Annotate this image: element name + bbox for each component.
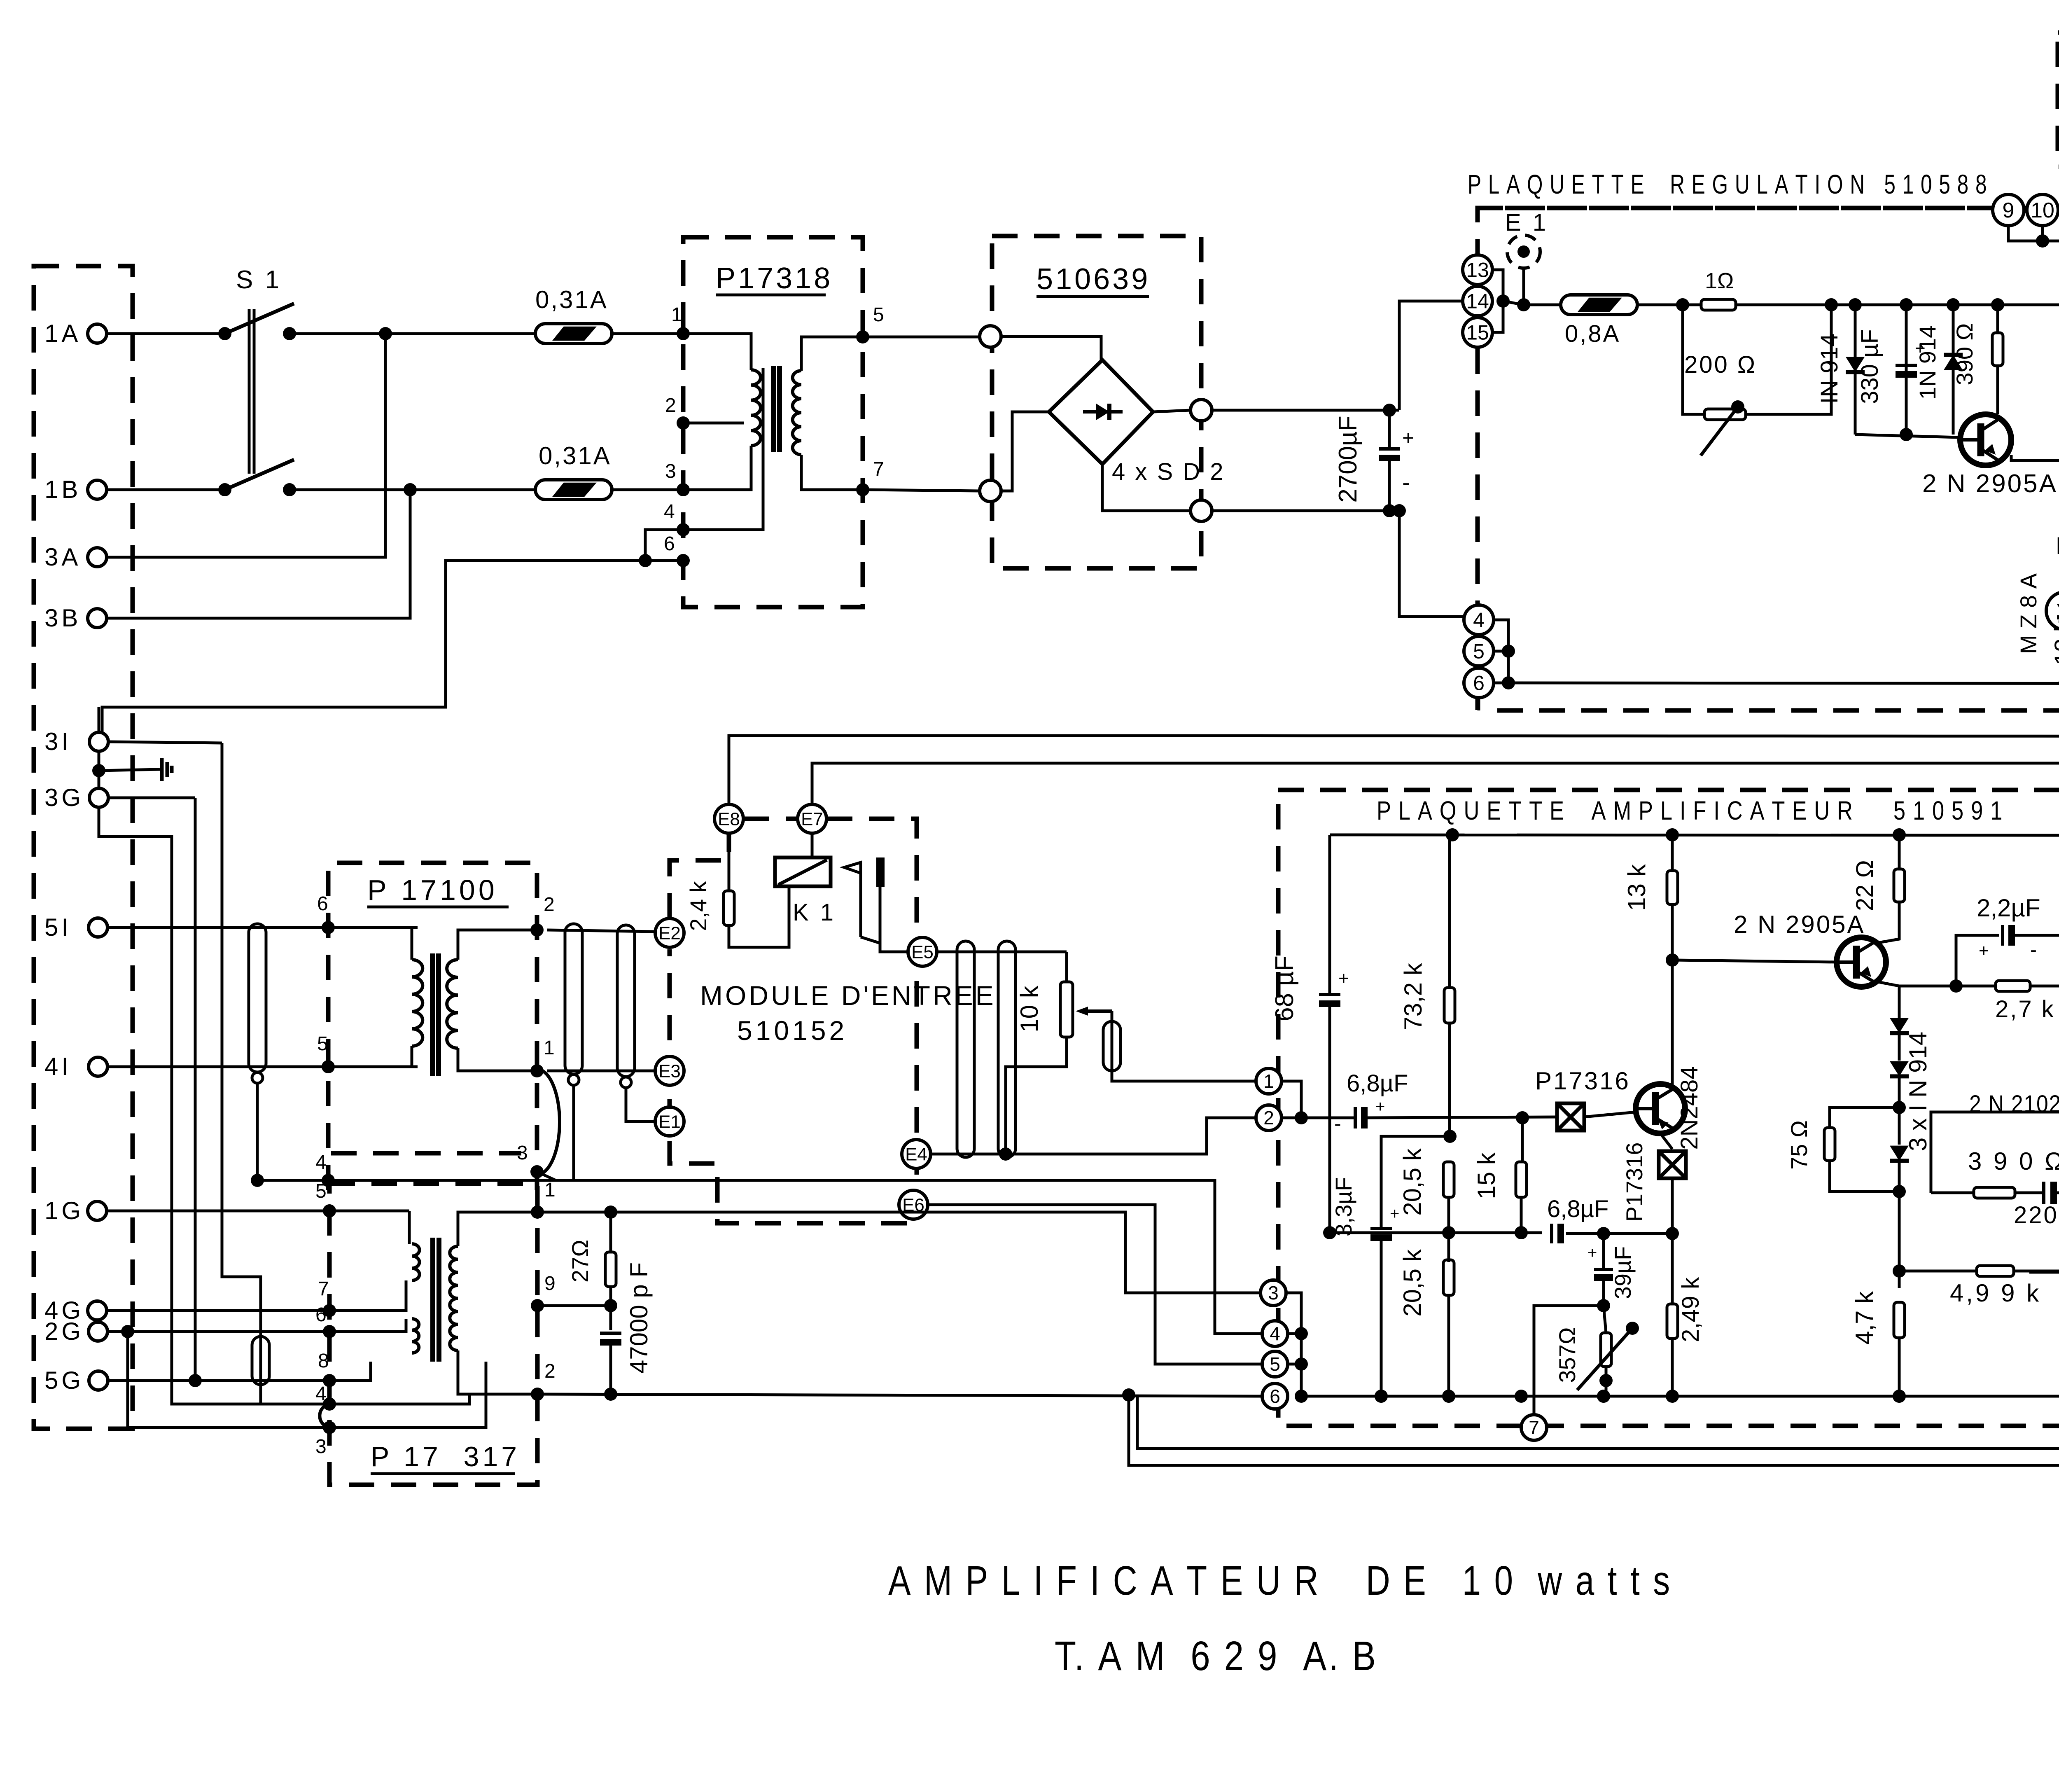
svg-text:13: 13	[1466, 259, 1489, 282]
left connector dashed box	[34, 266, 133, 1429]
svg-text:7: 7	[318, 1278, 329, 1300]
svg-text:E5: E5	[911, 942, 934, 962]
T2 core	[430, 953, 435, 1076]
svg-text:E3: E3	[658, 1061, 681, 1081]
line B output	[537, 1394, 1261, 1396]
T2 secondary coil	[447, 960, 458, 1048]
svg-text:47000 p F: 47000 p F	[625, 1262, 653, 1374]
bus E7 to 0V rail	[812, 763, 2059, 819]
P17100 dashed box	[328, 863, 537, 1190]
P17316 crossbox 1	[1557, 1103, 1584, 1131]
svg-text:1N 914: 1N 914	[1914, 325, 1940, 400]
svg-text:3A: 3A	[44, 543, 81, 571]
wire contact to E5	[880, 887, 908, 952]
T3 secondary coil	[450, 1246, 458, 1350]
wire 1B line	[107, 488, 225, 491]
transformer T1 core	[771, 366, 776, 452]
svg-text:2,2µF: 2,2µF	[1977, 894, 2040, 922]
pin 1 P17317	[531, 1206, 544, 1219]
resistor 390 ohm amp	[1931, 1112, 2059, 1193]
wire 68uF riser to feedback line	[1323, 1226, 1336, 1239]
svg-text:+: +	[1338, 968, 1349, 988]
bus E8 to +40 rail	[729, 736, 2059, 819]
svg-text:7: 7	[1529, 1417, 1539, 1438]
svg-text:K 1: K 1	[793, 899, 836, 926]
amp 2 line	[1282, 1117, 1355, 1119]
svg-text:5: 5	[315, 1180, 327, 1202]
wire 22ohm to 2905A emitter	[1876, 902, 1899, 943]
terminal 13	[1463, 255, 1492, 285]
dashes between terminal groups	[1478, 206, 1993, 210]
svg-text:1: 1	[544, 1037, 555, 1059]
potentiometer 10k	[1065, 952, 1068, 982]
E5 line to pot	[937, 951, 1067, 953]
svg-text:3,3µF: 3,3µF	[1331, 1177, 1356, 1236]
pin 3 P17317	[323, 1421, 336, 1434]
svg-text:3B: 3B	[44, 604, 81, 632]
510639 dashed box	[992, 236, 1201, 568]
svg-text:390 Ω: 390 Ω	[1952, 323, 1977, 386]
svg-text:P L A Q U E T T E A M P L I: P L A Q U E T T E A M P L I F I C A T E …	[1377, 796, 2003, 825]
resistor 15k	[1521, 1118, 1524, 1162]
terminal 1A	[88, 324, 107, 343]
fuse F1 0,31A	[535, 324, 612, 343]
svg-text:7: 7	[873, 458, 884, 480]
svg-text:510152: 510152	[737, 1015, 847, 1046]
wire 3I-3G vertical	[98, 751, 100, 788]
terminal 2G	[89, 1322, 107, 1341]
pin 7	[856, 483, 869, 496]
svg-text:1: 1	[1263, 1070, 1274, 1092]
svg-text:14: 14	[1466, 290, 1489, 313]
shield capsule 5I/4I	[249, 924, 266, 1072]
svg-text:68 µF: 68 µF	[1270, 956, 1299, 1021]
transistor 2N2905A amp1	[1837, 937, 1886, 987]
bridge input circle top	[980, 326, 1001, 347]
svg-text:4I: 4I	[44, 1053, 72, 1080]
svg-text:0,31A: 0,31A	[535, 286, 608, 313]
wire 1A line	[107, 332, 225, 335]
wire 3A	[107, 334, 385, 557]
pin 2 P17317	[531, 1388, 544, 1401]
svg-text:T. A M 6 2 9 A. B: T. A M 6 2 9 A. B	[1055, 1633, 1378, 1679]
svg-text:4: 4	[664, 501, 675, 523]
svg-text:220 p F: 220 p F	[2014, 1202, 2059, 1229]
wire diode bus	[1855, 435, 1959, 437]
svg-text:39µF: 39µF	[1610, 1246, 1636, 1299]
terminal amp 4	[1262, 1321, 1288, 1346]
svg-text:9: 9	[2003, 199, 2015, 222]
svg-text:3G: 3G	[44, 784, 84, 811]
svg-text:4,9 9 k: 4,9 9 k	[1950, 1279, 2041, 1307]
capsule E5 line no2	[998, 941, 1015, 1157]
terminal 1B	[88, 480, 107, 499]
shield capsule E2/E3 no1	[565, 924, 582, 1074]
resistor 75 ohm	[1830, 1107, 1899, 1127]
wire fuse to P17318 pin1	[612, 332, 683, 335]
4I line	[108, 1065, 418, 1068]
5G line pin8	[108, 1379, 329, 1382]
shield capsule pin4 wire	[252, 1336, 269, 1385]
wire 13-15 bracket	[1492, 270, 1503, 332]
resistor 2,7k amp	[1996, 981, 2030, 991]
pot 357 ohm	[1604, 1306, 1606, 1333]
svg-text:E7: E7	[801, 809, 823, 829]
T2 secondary wires	[458, 930, 537, 960]
diode inside bridge	[1083, 410, 1123, 414]
terminal 5	[1464, 636, 1494, 666]
svg-text:10 k: 10 k	[1015, 985, 1043, 1032]
svg-text:MODULE D'ENTREE: MODULE D'ENTREE	[700, 980, 996, 1011]
svg-text:M Z 8 A: M Z 8 A	[2015, 573, 2041, 654]
terminal 3B	[88, 609, 107, 628]
wire pin2 tap	[683, 422, 744, 425]
svg-text:1: 1	[544, 1179, 556, 1201]
svg-text:A M P L I F I C A T E U R D: A M P L I F I C A T E U R D E 1 0 w a t …	[888, 1558, 1672, 1604]
fuse F2 0,31A	[535, 480, 612, 500]
wire pin3 to coil	[683, 446, 751, 490]
terminal 6 stub to box edge	[1478, 698, 1480, 710]
wire crossbox2 down	[1671, 1178, 1674, 1234]
T3 primary upper	[408, 1211, 411, 1244]
P17317 dashed box	[329, 1184, 537, 1485]
shield bus P17100	[257, 1082, 574, 1180]
wire diamond bottom to output2	[1102, 464, 1191, 511]
shield bus to T4 amp	[574, 1180, 1261, 1334]
svg-text:+: +	[1979, 941, 1989, 960]
PLAQUETTE AMPLIFICATEUR box	[1278, 790, 2059, 1426]
5I line	[107, 926, 418, 929]
node junction 3A-1A	[379, 327, 392, 340]
fuse 0,8A	[1561, 295, 1637, 315]
svg-text:2,7 k: 2,7 k	[1995, 996, 2055, 1023]
riser 3G down to 5G line	[194, 798, 197, 1381]
resistor 20,5k upper	[1443, 1162, 1454, 1197]
E4 line to T2 amp	[931, 1118, 1255, 1154]
bus bottom 1	[1137, 1396, 2059, 1449]
pin 5 P17317	[323, 1204, 336, 1217]
svg-text:3: 3	[665, 460, 676, 482]
wire 3I stub up	[98, 707, 100, 732]
ground symbol	[99, 769, 160, 771]
terminal 4G	[88, 1301, 107, 1320]
svg-text:2N2484: 2N2484	[1676, 1066, 1703, 1149]
wire E1 stub	[1522, 268, 1525, 305]
svg-text:4: 4	[1270, 1323, 1280, 1344]
svg-text:5I: 5I	[44, 914, 72, 941]
terminal E2	[655, 918, 684, 947]
wire pin3 stub	[537, 1172, 556, 1180]
wire pin6	[645, 559, 683, 562]
transistor 2N2905A regulation	[1960, 414, 2011, 465]
svg-text:6: 6	[315, 1304, 327, 1326]
wire 73,2k to 3,3uF	[1381, 1136, 1450, 1227]
svg-text:E 1: E 1	[1505, 209, 1548, 236]
svg-text:+: +	[1915, 338, 1926, 358]
svg-text:200 Ω: 200 Ω	[1684, 351, 1757, 378]
svg-text:4: 4	[315, 1383, 327, 1405]
pot 10k wiper arrow	[1083, 1009, 1112, 1013]
svg-text:15 k: 15 k	[1473, 1152, 1500, 1199]
terminal amp 6	[1262, 1383, 1288, 1409]
resistor 73,2k	[1448, 835, 1451, 988]
diode IN914 no2	[1952, 305, 1955, 435]
line A output	[537, 1212, 1260, 1293]
svg-text:1B: 1B	[44, 476, 81, 503]
pin 4 P17100	[322, 1174, 335, 1187]
wire secondary bottom to pin7	[801, 455, 980, 491]
capacitor 2700uF	[1379, 447, 1400, 451]
svg-text:P 17100: P 17100	[367, 874, 498, 906]
svg-text:9: 9	[544, 1273, 556, 1294]
svg-text:2: 2	[1263, 1107, 1274, 1128]
2G line pin6	[107, 1330, 329, 1333]
terminal E7	[798, 804, 826, 833]
wire 9-12 bracket	[2008, 226, 2059, 241]
pin 2	[677, 416, 690, 430]
resistor 22 ohm	[1898, 835, 1901, 869]
switch S1 link	[248, 309, 251, 474]
svg-text:1: 1	[671, 304, 682, 326]
pin 3	[677, 483, 690, 496]
terminal E3	[655, 1056, 684, 1085]
pin 6 P17100	[322, 921, 335, 934]
svg-text:1Ω: 1Ω	[1705, 269, 1734, 293]
capacitor 220pF no1	[2042, 1182, 2045, 1204]
transformer T1 secondary coil	[793, 371, 801, 455]
feedback line 6,8uF2	[1330, 1231, 1542, 1234]
svg-text:1G: 1G	[44, 1197, 84, 1224]
capacitor 39uF	[1602, 1234, 1605, 1268]
svg-text:+: +	[1402, 426, 1414, 449]
wire pin9 to 27ohm	[537, 1304, 611, 1307]
svg-text:5G: 5G	[44, 1367, 84, 1394]
1G line	[107, 1210, 409, 1213]
capacitor 3,3uF	[1370, 1227, 1392, 1230]
terminal 4	[1464, 605, 1494, 635]
svg-text:E8: E8	[718, 809, 740, 829]
jumper arc pin3-pin1	[537, 1069, 560, 1175]
node 4,7k	[1893, 1264, 1906, 1278]
resistor 2,49k	[1671, 1234, 1674, 1304]
svg-text:1A: 1A	[44, 320, 81, 347]
svg-text:10: 10	[2031, 199, 2054, 222]
svg-text:22 Ω: 22 Ω	[1851, 860, 1878, 911]
capacitor 330uF	[1905, 305, 1908, 435]
terminal 9	[1993, 194, 2024, 226]
wire crossbox to 2N2484	[1584, 1112, 1636, 1117]
riser 3I right down to P17317 pin4	[222, 743, 261, 1404]
svg-text:357Ω: 357Ω	[1554, 1327, 1580, 1383]
resistor 13k amp	[1671, 835, 1674, 871]
T2 primary wires	[412, 928, 418, 960]
terminal E8	[714, 804, 743, 833]
wire 39uF to terminal 7	[1534, 1306, 1604, 1414]
svg-text:330 µF: 330 µF	[1856, 329, 1883, 404]
terminal 6	[1464, 668, 1494, 698]
wire flag link	[861, 937, 880, 943]
terminal E5	[908, 937, 937, 966]
svg-text:13 k: 13 k	[2050, 619, 2059, 665]
E1 shield wire	[626, 1088, 655, 1121]
wire 200ohm left riser	[1683, 305, 1704, 414]
relay K1 coil box	[775, 857, 831, 886]
svg-text:2G: 2G	[44, 1318, 84, 1345]
svg-text:6,8µF: 6,8µF	[1547, 1196, 1608, 1222]
wire secondary bottom to pin2	[458, 1350, 537, 1394]
transistor 2N2484	[1636, 1084, 1685, 1133]
pin 5	[856, 330, 869, 343]
relay contact flag	[859, 873, 862, 937]
pin 9 P17317	[531, 1299, 544, 1312]
svg-text:4,7 k: 4,7 k	[1851, 1291, 1878, 1345]
diode IN914 no1	[1854, 305, 1857, 435]
svg-text:0,8A: 0,8A	[1565, 320, 1620, 347]
wire to diamond left	[1001, 412, 1049, 491]
terminal 4I	[89, 1057, 107, 1076]
pin 3 P17100	[530, 1165, 544, 1178]
resistor 390 ohm reg	[1996, 305, 1999, 414]
wire 3G right	[110, 797, 195, 799]
wire 3I right	[108, 742, 222, 743]
wire 2905A emitter line	[2011, 455, 2059, 460]
wire 47000pF down	[609, 1343, 612, 1394]
wire 3-6 bracket amp	[1287, 1293, 1301, 1396]
svg-text:3: 3	[315, 1436, 327, 1458]
transformer T1 primary coil	[751, 370, 761, 446]
svg-text:2 N 2905A: 2 N 2905A	[1734, 911, 1865, 938]
wire bridge- riser to regulation 4	[1399, 511, 1465, 617]
base line left to vas emitter node	[2029, 1271, 2059, 1274]
terminal amp 2	[1256, 1105, 1282, 1131]
amp ground bus	[1301, 1395, 2059, 1398]
T3 secondary top wire	[458, 1212, 537, 1246]
bridge output circle top	[1191, 400, 1212, 421]
pin 2 P17100	[530, 923, 544, 937]
pin 5 P17100	[322, 1060, 335, 1073]
wire fuse to 1ohm	[1637, 304, 1702, 306]
bridge output circle bottom	[1191, 500, 1212, 521]
wire pin4 loop	[645, 530, 683, 561]
capsule E5 line no1	[957, 941, 974, 1157]
wire fuse2 to P17318 pin3	[612, 488, 683, 491]
svg-text:2: 2	[665, 395, 676, 416]
svg-text:4 x S D 2: 4 x S D 2	[1112, 458, 1225, 485]
PLAQUETTE REGULATION 510588 box	[1478, 208, 1993, 348]
terminal 3A	[88, 548, 107, 567]
svg-text:510639: 510639	[1037, 263, 1150, 296]
svg-text:6: 6	[317, 893, 328, 915]
svg-text:13 k: 13 k	[1623, 864, 1650, 911]
terminal amp 1	[1256, 1068, 1282, 1094]
svg-text:3I: 3I	[44, 728, 72, 755]
pin 1 P17100	[530, 1064, 544, 1077]
capacitor 6,8uF input	[1354, 1107, 1357, 1128]
T3 primary lower	[412, 1319, 419, 1353]
pin 6	[677, 554, 690, 567]
svg-text:2,49 k: 2,49 k	[1677, 1277, 1704, 1342]
terminal amp 3	[1261, 1280, 1286, 1306]
svg-text:20,5 k: 20,5 k	[1398, 1148, 1426, 1215]
pin 4 P17317	[323, 1397, 336, 1411]
svg-text:3: 3	[1268, 1282, 1279, 1304]
wire 3B	[107, 490, 410, 618]
svg-text:IN 914: IN 914	[1816, 334, 1843, 404]
regulation ground rail	[1508, 683, 2059, 684]
wire bridge- line	[1212, 509, 1399, 512]
resistor 27 ohm out	[609, 1212, 612, 1252]
switch S1 pole 2	[218, 483, 231, 496]
capsule wiper	[1103, 1021, 1121, 1071]
svg-text:6: 6	[1473, 672, 1485, 695]
terminal 15	[1463, 318, 1492, 347]
wire pot bottom loop	[1006, 1037, 1067, 1154]
wire secondary top to pin5	[801, 337, 980, 371]
terminal 5I	[89, 918, 107, 937]
svg-text:3 9 0 Ω: 3 9 0 Ω	[1968, 1147, 2059, 1175]
test point E1	[1507, 235, 1540, 268]
wire T1 to T2 line	[1282, 1081, 1301, 1118]
svg-text:-: -	[2030, 939, 2037, 961]
terminal amp 7	[1521, 1415, 1547, 1440]
diode chain 3xIN914	[1898, 986, 1901, 1018]
svg-text:4: 4	[1473, 609, 1485, 632]
capacitor 68uF	[1328, 835, 1331, 993]
svg-text:73,2 k: 73,2 k	[1399, 963, 1427, 1030]
wire pin4 to core top	[683, 368, 763, 530]
svg-text:P17318: P17318	[716, 262, 833, 295]
wire 4-5-6 bracket	[1494, 620, 1508, 683]
terminal E4	[902, 1140, 931, 1168]
svg-text:2: 2	[544, 1360, 556, 1382]
bridge input circle bottom	[980, 480, 1001, 502]
svg-text:-: -	[1402, 469, 1410, 495]
terminal 10	[2027, 194, 2058, 226]
wire pin1 to coil	[683, 334, 751, 370]
svg-text:E4: E4	[905, 1144, 927, 1164]
E3 line	[547, 1070, 655, 1072]
resistor 200 ohm	[1704, 409, 1746, 420]
terminal 1G	[88, 1201, 107, 1220]
resistor 20,5k lower	[1443, 1260, 1454, 1295]
resistor 4,7k	[1894, 1302, 1905, 1338]
resistor 4,99k	[1899, 1270, 1976, 1273]
svg-text:8: 8	[318, 1350, 329, 1372]
wire 2,4k to relay bottom	[729, 886, 789, 947]
svg-text:E2: E2	[658, 923, 681, 943]
terminal 5G	[89, 1371, 108, 1390]
wire 1B to fuse	[289, 488, 535, 491]
regulation main line	[1503, 301, 1561, 305]
terminal 14	[1463, 286, 1492, 316]
svg-text:3: 3	[517, 1142, 528, 1164]
bus bottom 2	[1122, 1388, 1135, 1402]
wire bridge+ to cap node	[1212, 409, 1399, 412]
wire 2,7k line	[1899, 985, 2059, 988]
wire pin6 to 3I riser	[102, 561, 645, 732]
svg-text:+: +	[1390, 1205, 1399, 1223]
switch S1 pole 1	[218, 327, 231, 340]
svg-text:3 x I N 914: 3 x I N 914	[1904, 1032, 1932, 1151]
svg-text:+: +	[1375, 1098, 1385, 1116]
pin 1	[677, 327, 690, 340]
capacitor 2,2uF loop	[1956, 935, 1999, 986]
wire 2905A collector to diode chain	[1878, 982, 1899, 986]
svg-text:27Ω: 27Ω	[567, 1240, 593, 1283]
T2 primary coil	[412, 960, 423, 1046]
svg-text:6: 6	[1270, 1385, 1280, 1407]
wire to diamond top	[1001, 336, 1101, 360]
